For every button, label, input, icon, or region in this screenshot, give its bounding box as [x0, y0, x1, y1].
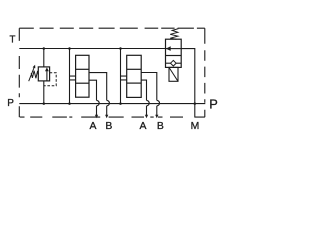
relief valve RV1 drain wire to P rail — [43, 81, 45, 104]
module S2 port A wire lower — [146, 106, 148, 115]
module S2 port B wire lower — [156, 106, 158, 115]
module S2 lower stub — [121, 79, 127, 81]
unloading valve V3 spring — [170, 29, 178, 40]
wire: T rail — [19, 48, 165, 50]
module S1 lower stub — [70, 79, 76, 81]
svg-text:A: A — [140, 121, 147, 132]
module S1 port A wire — [89, 80, 97, 100]
module S2 stack body — [127, 55, 142, 97]
relief valve RV1 adjustment arrowhead — [33, 65, 36, 68]
relief valve RV1 body — [38, 67, 49, 81]
svg-text:P: P — [209, 97, 218, 112]
unloading valve V3 flow path line (upper cell) — [166, 48, 182, 50]
module S1 port B wire — [89, 73, 107, 101]
port A1 arrowhead — [95, 115, 98, 119]
module S1 stack body — [76, 55, 89, 97]
module S2 upper stub — [121, 75, 127, 77]
junction dot P rail / valve V3 outlet — [194, 102, 197, 105]
module S2 stack divider 2 — [127, 82, 142, 84]
svg-text:B: B — [105, 121, 112, 132]
module S1 port B hop over P rail — [107, 100, 110, 105]
relief valve RV1 internal flow arrow — [46, 71, 48, 81]
module S2 port B wire — [141, 73, 157, 101]
relief valve RV1 inlet wire from T rail — [43, 49, 45, 67]
manifold enclosure left border (dashed) — [18, 28, 20, 117]
module S1 stack divider 1 — [76, 68, 89, 70]
manifold enclosure right border (dashed) — [204, 28, 206, 117]
relief valve RV1 pilot line (dashed) — [44, 73, 56, 86]
module S2 port A hop over P rail — [147, 100, 150, 105]
unloading valve V3 position divider — [166, 55, 182, 57]
solenoid V3 coil box — [169, 67, 178, 81]
unloading valve V3 body — [166, 39, 182, 67]
module S2 port A wire — [141, 80, 146, 100]
module S1 upper stub — [70, 75, 76, 77]
junction dot P rail / module S2 — [119, 102, 122, 105]
unloading valve V3 check line (lower cell) — [166, 62, 182, 64]
junction dot T rail / relief valve — [43, 47, 46, 50]
unloading valve V3 check diamond — [171, 60, 177, 66]
module S1 port B wire lower — [106, 106, 108, 115]
module S1 stack divider 2 — [76, 82, 89, 84]
junction dot P rail / module S1 — [68, 102, 71, 105]
wire: P rail — [19, 103, 205, 105]
relief valve RV1 adjustment arrow shaft — [29, 66, 35, 81]
manifold enclosure bottom border (dashed) — [20, 116, 205, 118]
port B1 arrowhead — [105, 115, 108, 119]
svg-text:A: A — [90, 121, 97, 132]
svg-text:B: B — [157, 121, 164, 132]
module S1 port A hop over P rail — [97, 100, 100, 105]
solenoid V3 coil diagonal — [169, 67, 178, 81]
manifold enclosure top border (dashed) — [19, 27, 205, 29]
relief valve RV1 spring — [31, 71, 38, 79]
port B2 arrowhead — [155, 115, 158, 119]
junction dot T rail / module S1 — [68, 47, 71, 50]
junction dot P rail / relief valve — [43, 102, 46, 105]
module S2 supply wire (T rail to P rail) — [120, 49, 122, 104]
port M wire — [194, 104, 196, 118]
port A2 arrowhead — [145, 115, 148, 119]
svg-text:P: P — [7, 98, 14, 109]
svg-text:M: M — [191, 121, 200, 132]
unloading valve V3 flow arrowhead (points left) — [166, 46, 171, 51]
module S2 stack divider 1 — [127, 68, 142, 70]
svg-text:T: T — [10, 34, 16, 45]
unloading valve V3 outlet wire to P rail — [181, 49, 195, 104]
module S1 port A wire lower — [96, 106, 98, 115]
junction dot T rail / module S2 — [119, 47, 122, 50]
module S2 port B hop over P rail — [157, 100, 160, 105]
module S1 supply wire (T rail to P rail) — [69, 49, 71, 104]
